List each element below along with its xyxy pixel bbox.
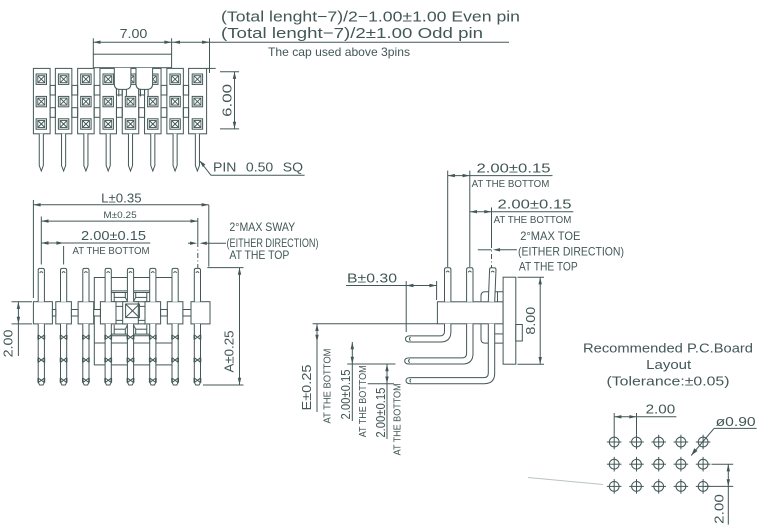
svg-text:AT THE BOTTOM: AT THE BOTTOM: [472, 179, 550, 190]
svg-text:AT THE BOTTOM: AT THE BOTTOM: [393, 383, 404, 455]
svg-text:AT THE BOTTOM: AT THE BOTTOM: [322, 349, 333, 424]
svg-text:Recommended P.C.Board: Recommended P.C.Board: [583, 341, 753, 356]
svg-text:2.00: 2.00: [2, 330, 16, 358]
svg-text:2°MAX SWAY: 2°MAX SWAY: [229, 220, 295, 234]
svg-text:2.00: 2.00: [646, 403, 676, 417]
svg-text:AT THE BOTTOM: AT THE BOTTOM: [494, 215, 572, 226]
svg-text:AT THE BOTTOM: AT THE BOTTOM: [73, 246, 150, 257]
svg-text:PIN 0.50 SQ: PIN 0.50 SQ: [213, 161, 303, 175]
svg-text:AT THE TOP: AT THE TOP: [519, 259, 578, 273]
svg-text:2.00±0.15: 2.00±0.15: [477, 161, 551, 175]
svg-text:7.00: 7.00: [120, 27, 148, 41]
svg-text:(Total lenght−7)/2−1.00±1.00: (Total lenght−7)/2−1.00±1.00 Even pin: [221, 9, 520, 26]
svg-text:(EITHER DIRECTION): (EITHER DIRECTION): [518, 244, 624, 258]
svg-text:B±0.30: B±0.30: [347, 271, 397, 285]
svg-text:(Total lenght−7)/2±1.00 Odd p: (Total lenght−7)/2±1.00 Odd pin: [221, 25, 483, 42]
svg-text:Layout: Layout: [646, 357, 691, 372]
svg-text:M±0.25: M±0.25: [103, 210, 136, 221]
svg-text:2.00: 2.00: [713, 494, 727, 524]
svg-text:ø0.90: ø0.90: [716, 415, 756, 429]
svg-text:6.00: 6.00: [220, 84, 235, 117]
svg-text:The cap used above 3pins: The cap used above 3pins: [268, 45, 410, 59]
svg-text:2.00±0.15: 2.00±0.15: [339, 369, 353, 419]
svg-text:2.00±0.15: 2.00±0.15: [81, 229, 146, 243]
svg-text:AT THE BOTTOM: AT THE BOTTOM: [358, 365, 369, 437]
svg-text:2.00±0.15: 2.00±0.15: [498, 198, 572, 212]
svg-text:8.00: 8.00: [524, 307, 538, 335]
svg-text:AT THE TOP: AT THE TOP: [229, 248, 289, 262]
svg-text:2°MAX TOE: 2°MAX TOE: [520, 229, 580, 243]
svg-text:(Tolerance:±0.05): (Tolerance:±0.05): [607, 374, 730, 389]
svg-text:2.00±0.15: 2.00±0.15: [374, 388, 388, 438]
svg-text:E±0.25: E±0.25: [300, 364, 314, 410]
svg-text:A±0.25: A±0.25: [223, 330, 237, 372]
svg-text:L±0.35: L±0.35: [101, 191, 141, 205]
